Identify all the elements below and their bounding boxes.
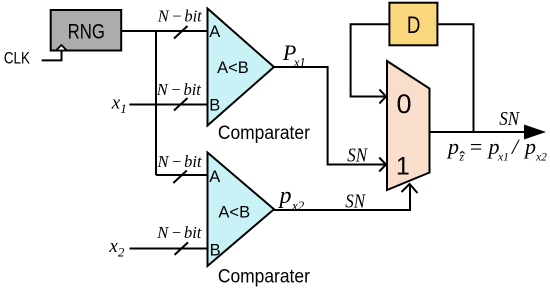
wire comparator1 output Px1 to MUX input 1	[273, 67, 385, 165]
svg-text:N−bit: N−bit	[157, 7, 202, 26]
bus slash 3	[173, 171, 187, 184]
svg-text:SN: SN	[347, 144, 368, 167]
output arrowhead	[524, 125, 546, 140]
MUX	[387, 61, 430, 190]
comparator U2	[208, 153, 275, 267]
svg-text:/: /	[510, 134, 520, 159]
D flip-flop U3	[389, 3, 437, 46]
svg-text:1: 1	[396, 153, 410, 181]
svg-text:B: B	[210, 241, 221, 259]
svg-text:x2: x2	[108, 236, 124, 260]
arrowhead into MUX select	[402, 184, 418, 193]
svg-text:A: A	[209, 168, 220, 186]
wire x1 to comparator B	[129, 104, 208, 106]
wire x2 to comparator2 B	[130, 248, 209, 250]
wire junction vertical from RNG output	[155, 31, 157, 175]
svg-text:p: p	[446, 134, 459, 159]
wire comparator2 output px2 / select wire	[273, 185, 410, 210]
svg-text:SN: SN	[345, 190, 366, 213]
arrowhead into MUX input 0	[379, 90, 386, 104]
bus slash 2	[174, 98, 188, 111]
svg-text:px2: px2	[278, 183, 305, 213]
svg-text:x2: x2	[535, 152, 547, 164]
svg-text:SN: SN	[499, 108, 520, 131]
wire CLK input	[42, 52, 62, 61]
arrowhead into MUX input 1	[379, 158, 386, 172]
svg-text:N−bit: N−bit	[157, 152, 202, 171]
wire output to D input	[438, 24, 474, 132]
svg-text:B: B	[209, 97, 220, 115]
svg-text:A<B: A<B	[217, 59, 249, 77]
svg-text:=: =	[469, 134, 484, 159]
wire D feedback to MUX input 0	[351, 24, 389, 96]
svg-text:N−bit: N−bit	[156, 223, 201, 242]
svg-text:p: p	[523, 134, 536, 159]
RNG block	[51, 10, 122, 51]
clock triangle on RNG	[56, 45, 67, 51]
svg-text:Comparater: Comparater	[218, 123, 311, 144]
wire RNG output to comparator A	[121, 30, 208, 32]
svg-text:D: D	[407, 12, 421, 39]
svg-text:x1: x1	[497, 152, 509, 164]
svg-text:A: A	[209, 23, 220, 41]
svg-text:A<B: A<B	[218, 204, 250, 222]
svg-text:CLK: CLK	[4, 49, 31, 68]
svg-text:N−bit: N−bit	[156, 80, 201, 99]
svg-text:RNG: RNG	[68, 21, 105, 44]
label equation p_z = p_x1 / p_x2	[446, 134, 547, 164]
bus slash 1	[174, 26, 188, 39]
hat over subscript z	[460, 152, 465, 154]
bus slash 4	[175, 242, 189, 255]
svg-text:Comparater: Comparater	[218, 266, 311, 287]
wire vertical to comparator2 A input	[156, 174, 208, 176]
svg-text:Px1: Px1	[282, 40, 306, 70]
svg-text:x1: x1	[111, 93, 127, 117]
svg-text:0: 0	[396, 89, 411, 119]
wire MUX output SN	[431, 131, 528, 133]
comparator U1	[208, 9, 275, 126]
